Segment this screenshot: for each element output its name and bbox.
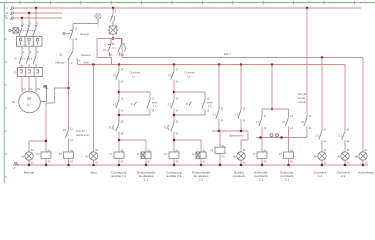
contact solenoid 2.1 (NO)	[282, 115, 293, 130]
svg-text:Seletora: Seletora	[81, 53, 92, 57]
frame left ticks	[4, 16, 6, 177]
svg-text:Vem do: Vem do	[76, 130, 85, 133]
wire pole risers to breaker	[22, 8, 36, 25]
svg-text:3 ~: 3 ~	[27, 103, 32, 107]
lamp H4 cummins 1.1	[314, 149, 327, 164]
contact latch1 parallel (NO)	[147, 97, 155, 112]
lamp H2 Auto	[85, 149, 98, 164]
contactor K1 main contacts	[19, 53, 36, 64]
wire lamp H1 to rail N	[28, 160, 30, 165]
wire selector manual output	[68, 61, 70, 127]
wire aux split bar	[97, 38, 122, 40]
node L3-pole3	[21, 17, 23, 19]
motor M1	[12, 91, 40, 113]
svg-text:Auto: Auto	[90, 170, 97, 174]
coil T2 temporizador	[192, 149, 207, 163]
wire phase L2	[13, 12, 62, 14]
svg-text:2.1: 2.1	[208, 105, 212, 108]
node aux split	[112, 37, 114, 39]
wire latch2 top link	[174, 92, 205, 97]
contact 1.1 23-24 (NO)	[213, 107, 224, 122]
contact F1 97-98 (NO)	[118, 39, 126, 57]
wire latch1 top link	[119, 92, 150, 97]
svg-text:2.1: 2.1	[339, 134, 343, 137]
node rail A auto lamp	[92, 63, 94, 65]
latch1 mid glyph	[131, 102, 137, 106]
terminal L2	[5, 12, 13, 15]
overload relay F1	[18, 68, 43, 77]
wire L1 drop to breaker Q2	[112, 8, 114, 14]
contact C1 Cummins1 (NO)	[113, 68, 124, 83]
wire coil T2 to rail N	[200, 158, 202, 165]
wire coil T1 to rail N	[145, 158, 147, 165]
svg-text:2.1: 2.1	[282, 121, 286, 124]
frame top border	[0, 2, 375, 4]
node solenoid link 2	[280, 136, 282, 138]
node manual lamp/coil split	[45, 140, 47, 142]
svg-text:1.1: 1.1	[259, 177, 264, 181]
rail A (auto bus)	[78, 64, 346, 66]
wire C1 to latch node	[118, 80, 120, 97]
svg-text:porção: porção	[298, 97, 306, 100]
pushbutton S1 Emerg (NC)	[63, 28, 73, 39]
wire contact to lamp H5	[344, 140, 346, 152]
node rail A group2	[173, 63, 175, 65]
wire T1 to coils	[119, 132, 146, 152]
svg-text:Manual: Manual	[24, 170, 34, 174]
node L2-pole2	[28, 12, 30, 14]
wire manual sub-branch	[29, 88, 69, 152]
mechanical link F1 aux (dashed)	[112, 47, 117, 49]
wire coil 1T to rail N	[261, 158, 263, 165]
node rail A barramento1	[218, 63, 220, 65]
wire barramento to lamp H3	[241, 131, 248, 152]
svg-text:manual: manual	[298, 101, 307, 104]
svg-text:PE: PE	[44, 86, 48, 89]
wire coil K1 to rail N	[68, 158, 70, 165]
svg-text:M: M	[27, 96, 31, 101]
wire to emergency chain	[73, 19, 98, 24]
wire overload to motor	[22, 77, 36, 93]
contact 2.1 43-44 (NO)	[339, 128, 350, 143]
node latch1 top	[118, 91, 120, 93]
wire selector auto output to rail A	[77, 61, 79, 64]
wire S1 to selector	[72, 39, 74, 49]
node solenoid header	[271, 108, 273, 110]
node group2 coil split	[173, 139, 175, 141]
coil 1.1 contactora auxiliar	[109, 149, 124, 163]
coil 2T solenoide	[279, 149, 294, 163]
svg-text:Assistência: Assistência	[358, 170, 374, 174]
terminal L3	[5, 17, 13, 20]
node latch2 bottom	[173, 114, 175, 116]
svg-text:2T: 2T	[279, 153, 282, 156]
node L1 tap control	[112, 7, 114, 9]
svg-text:1.1: 1.1	[316, 134, 320, 137]
svg-text:Cummins: Cummins	[130, 72, 141, 75]
wire rail B end drop	[362, 58, 364, 153]
lamp H5 cummins 2.1	[337, 149, 350, 164]
selector switch S2	[68, 49, 78, 62]
wire rail A to contact C2	[173, 65, 175, 69]
frame top ticks	[20, 1, 354, 4]
svg-text:1.1: 1.1	[153, 105, 157, 108]
node rail A barramento2	[240, 63, 242, 65]
node latch2 top	[173, 91, 175, 93]
svg-text:Cummins: Cummins	[185, 72, 196, 75]
wire latch2 bottom link	[174, 109, 205, 120]
svg-text:2.1: 2.1	[199, 177, 204, 181]
svg-text:operando: operando	[232, 174, 245, 178]
wire lamp H2 to rail N	[93, 160, 95, 165]
wire rail A to solenoid header	[271, 65, 273, 110]
wire breaker to contactor	[22, 46, 36, 53]
node L1-pole1	[35, 7, 37, 9]
coil K1a bomba	[210, 145, 225, 159]
frame left border	[3, 3, 5, 184]
net barramento	[212, 130, 248, 132]
svg-text:1.1: 1.1	[132, 75, 136, 78]
wire L1 long drop	[306, 8, 308, 115]
wire 95-96 return to rail A	[97, 39, 112, 65]
wire latch1 bottom link	[119, 109, 150, 120]
svg-text:1.1: 1.1	[256, 121, 260, 124]
svg-text:barramento: barramento	[76, 134, 89, 137]
wire auto lamp column	[93, 65, 95, 153]
lamp H3 bomba operando	[233, 149, 246, 164]
wire contacts to barramento	[219, 119, 241, 131]
rail N bottom	[13, 164, 368, 166]
rail B (fase T)	[122, 57, 363, 59]
svg-text:auxiliar 1.1: auxiliar 1.1	[112, 174, 127, 178]
wire coil 2.1 to rail N	[173, 158, 175, 165]
svg-text:Auto: Auto	[84, 60, 90, 64]
node L1 manual feed	[306, 7, 308, 9]
wire lamp H3 to rail N	[240, 160, 242, 165]
wire lamp H6 to rail N	[362, 160, 364, 165]
contact 1.1 13-14 (NO)	[113, 97, 124, 112]
node barramento K1	[218, 130, 220, 132]
breaker Q1 trip icon	[9, 28, 19, 33]
svg-text:2.1: 2.1	[341, 174, 346, 178]
svg-text:Emerg.: Emerg.	[81, 32, 90, 36]
node rail B cummins1	[321, 56, 323, 58]
node rail A solenoid tap	[271, 63, 273, 65]
breaker Q1 pole contacts	[19, 25, 36, 36]
node rail N taps	[28, 164, 364, 166]
svg-text:trava: trava	[207, 101, 213, 104]
contact K2 23-24 (NO)	[301, 115, 312, 130]
svg-text:1.1: 1.1	[144, 177, 149, 181]
wire fuse to aux split	[112, 34, 114, 39]
wire contact to lamp H4	[321, 140, 323, 152]
contact solenoid 1.1 (NO)	[256, 115, 267, 130]
wire barramento to coil K1a	[219, 131, 221, 147]
coil 2.1 contactora auxiliar	[164, 149, 179, 163]
lamp H6 assistencia	[355, 149, 368, 164]
contact latch2 parallel (NO)	[202, 97, 210, 112]
coil K1	[59, 149, 74, 163]
svg-text:Vem da: Vem da	[298, 93, 307, 96]
wire solenoid header	[262, 109, 289, 115]
node rail A group1	[118, 63, 120, 65]
contact K2 13-14 (NO)	[63, 127, 73, 142]
svg-text:2.1: 2.1	[187, 75, 191, 78]
wire coil 2T to rail N	[288, 158, 290, 165]
breaker Q1 thermal box	[17, 37, 43, 47]
terminal N	[14, 162, 19, 169]
coil K2	[36, 149, 51, 163]
svg-text:1.1: 1.1	[213, 113, 217, 116]
breaker Q1 mechanical link (dashed)	[19, 29, 36, 31]
wire rail B to contact 43-44 (1.1)	[321, 58, 323, 129]
svg-text:Manual: Manual	[56, 60, 65, 64]
wire coil K2 to rail N	[45, 158, 47, 165]
wire emergency drop	[72, 24, 74, 28]
svg-text:1.1: 1.1	[109, 153, 113, 156]
wire lamp H4 to rail N	[321, 160, 323, 165]
wire contact K2 to coil K1	[68, 139, 70, 152]
wire K2 contact to link	[306, 126, 308, 137]
wire rail A to contact 23-24	[218, 65, 220, 108]
svg-text:2.1: 2.1	[285, 177, 290, 181]
coil 1T solenoide	[253, 149, 268, 163]
svg-text:1T: 1T	[253, 153, 256, 156]
terminal L1	[5, 7, 13, 10]
node solenoid link 1	[259, 136, 261, 138]
motor PE wire	[40, 86, 47, 102]
svg-text:2.1: 2.1	[164, 153, 168, 156]
wire T2 to coils	[174, 132, 201, 152]
timer contact T2 (NO delayed)	[164, 120, 179, 135]
wire coil 1.1 to rail N	[118, 158, 120, 165]
svg-text:2.1: 2.1	[235, 113, 239, 116]
svg-text:G: G	[186, 1, 188, 3]
wire rail A to contact 13-14	[240, 65, 242, 108]
svg-text:M1: M1	[12, 101, 16, 104]
svg-text:fase T: fase T	[224, 52, 232, 56]
contact C2 Cummins2 (NO)	[168, 68, 179, 83]
wire solenoid link	[257, 126, 308, 137]
wire C2 to latch node	[173, 80, 175, 97]
wire 97-98 to rail B	[121, 39, 123, 58]
wire phase L3	[13, 17, 62, 19]
wire rail A to contact C1	[118, 65, 120, 69]
contact F1 95-96 (NC)	[108, 39, 112, 57]
node group1 coil split	[118, 139, 120, 141]
node manual split	[67, 87, 69, 89]
contact 2.1 13-14 (NO)	[235, 107, 246, 122]
svg-text:1.1: 1.1	[113, 103, 117, 106]
wire coil K1a to rail N	[219, 154, 221, 166]
svg-text:1.1: 1.1	[318, 174, 323, 178]
timer contact T1 (NO delayed)	[109, 120, 124, 135]
breaker Q2 control circuit	[110, 14, 114, 26]
wire link to coil 1T	[261, 138, 263, 153]
wire contactor to overload	[22, 64, 36, 68]
timer glyphs on link	[270, 134, 279, 138]
lamp H1 Manual	[21, 149, 34, 164]
fuse F2 (box with X)	[108, 26, 119, 34]
wire link to coil 2T	[288, 138, 290, 153]
svg-text:2.1: 2.1	[168, 103, 172, 106]
wire lamp H5 to rail N	[344, 160, 346, 165]
latch2 mid glyph	[186, 102, 192, 106]
svg-text:trava: trava	[152, 101, 158, 104]
wire rail A end drop	[344, 65, 346, 129]
wire phase L1	[13, 7, 361, 9]
contact 1.1 43-44 (NO)	[316, 128, 327, 143]
breaker Q2 trip unit icon	[94, 14, 101, 27]
contact 2.1 13-14 (NO)	[168, 97, 179, 112]
svg-text:J: J	[278, 1, 279, 3]
svg-text:auxiliar 2.1: auxiliar 2.1	[167, 174, 182, 178]
node barramento lamp	[240, 130, 242, 132]
node latch1 bottom	[118, 114, 120, 116]
svg-text:Barramento: Barramento	[229, 134, 244, 138]
coil T1 temporizador	[137, 149, 152, 163]
